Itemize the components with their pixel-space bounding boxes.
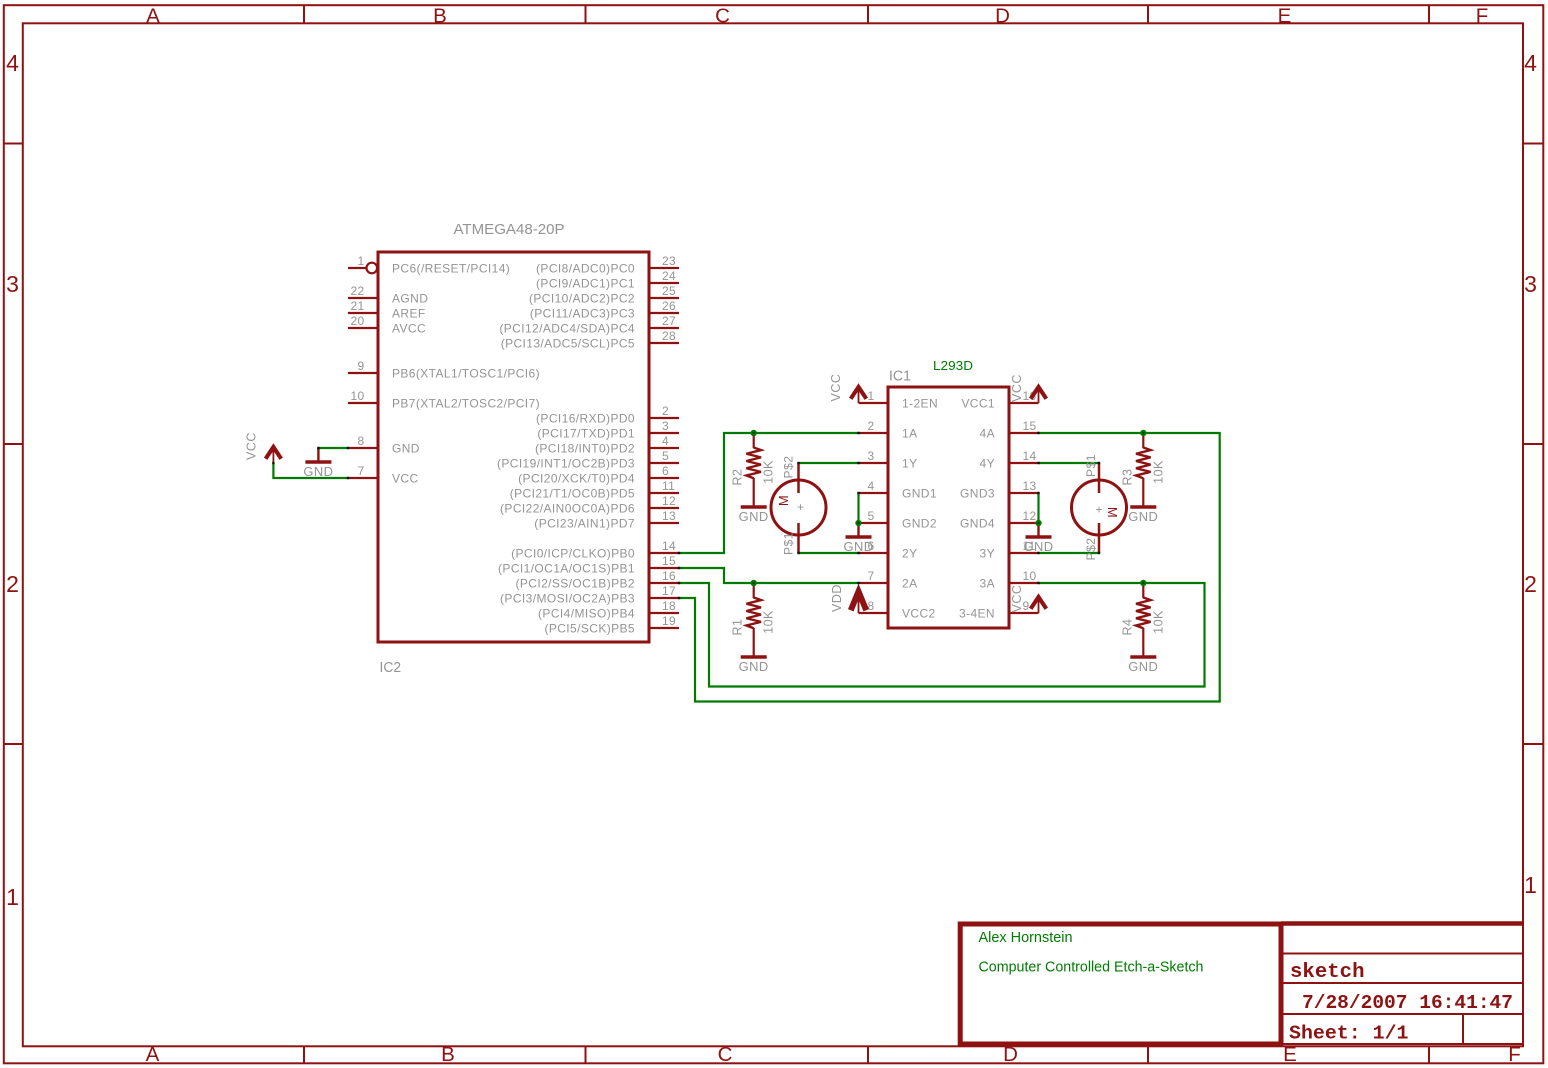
svg-text:28: 28 <box>662 329 676 343</box>
svg-text:A: A <box>146 5 160 28</box>
svg-text:ATMEGA48-20P: ATMEGA48-20P <box>454 221 565 238</box>
svg-text:(PCI5/SCK)PB5: (PCI5/SCK)PB5 <box>544 621 635 635</box>
svg-text:3A: 3A <box>980 576 995 590</box>
svg-text:C: C <box>718 1043 733 1066</box>
svg-text:GND2: GND2 <box>902 516 937 530</box>
svg-text:1: 1 <box>1524 872 1537 898</box>
svg-text:22: 22 <box>351 284 365 298</box>
svg-text:1A: 1A <box>902 426 917 440</box>
svg-text:15: 15 <box>662 554 676 568</box>
svg-text:IC2: IC2 <box>380 659 402 676</box>
svg-text:R2: R2 <box>731 469 745 486</box>
svg-text:1: 1 <box>868 389 875 403</box>
svg-text:B: B <box>433 5 447 28</box>
svg-text:10K: 10K <box>1151 460 1165 484</box>
svg-text:14: 14 <box>1023 449 1037 463</box>
svg-text:24: 24 <box>662 269 676 283</box>
svg-text:3: 3 <box>1524 271 1537 297</box>
svg-text:(PCI21/T1/OC0B)PD5: (PCI21/T1/OC0B)PD5 <box>510 486 635 500</box>
svg-text:GND: GND <box>392 441 420 455</box>
svg-text:18: 18 <box>662 599 676 613</box>
svg-text:AVCC: AVCC <box>392 321 426 335</box>
svg-text:D: D <box>995 5 1010 28</box>
svg-text:12: 12 <box>662 494 676 508</box>
svg-text:2: 2 <box>6 571 19 597</box>
svg-text:GND4: GND4 <box>960 516 995 530</box>
svg-text:10K: 10K <box>761 460 775 484</box>
svg-text:8: 8 <box>868 599 875 613</box>
svg-text:10: 10 <box>1023 569 1037 583</box>
svg-text:4: 4 <box>6 50 19 76</box>
svg-text:R3: R3 <box>1120 469 1134 486</box>
svg-text:4: 4 <box>868 479 875 493</box>
svg-text:7: 7 <box>358 464 365 478</box>
svg-text:7/28/2007 16:41:47: 7/28/2007 16:41:47 <box>1302 992 1513 1014</box>
svg-text:(PCI23/AIN1)PD7: (PCI23/AIN1)PD7 <box>534 516 635 530</box>
svg-text:(PCI12/ADC4/SDA)PC4: (PCI12/ADC4/SDA)PC4 <box>499 321 635 335</box>
svg-text:M: M <box>1105 507 1120 518</box>
svg-text:2: 2 <box>868 419 875 433</box>
svg-text:(PCI16/RXD)PD0: (PCI16/RXD)PD0 <box>536 411 635 425</box>
svg-text:P$1: P$1 <box>782 532 796 555</box>
svg-text:(PCI0/ICP/CLKO)PB0: (PCI0/ICP/CLKO)PB0 <box>511 546 635 560</box>
svg-text:Alex Hornstein: Alex Hornstein <box>979 929 1073 946</box>
svg-text:5: 5 <box>868 509 875 523</box>
svg-text:14: 14 <box>662 539 676 553</box>
svg-text:M: M <box>776 495 791 506</box>
svg-text:VCC: VCC <box>392 471 419 485</box>
svg-text:2: 2 <box>662 404 669 418</box>
svg-text:PB6(XTAL1/TOSC1/PCI6): PB6(XTAL1/TOSC1/PCI6) <box>392 366 540 380</box>
svg-text:(PCI1/OC1A/OC1S)PB1: (PCI1/OC1A/OC1S)PB1 <box>498 561 635 575</box>
svg-text:13: 13 <box>1023 479 1037 493</box>
svg-text:Computer Controlled Etch-a-Ske: Computer Controlled Etch-a-Sketch <box>979 959 1204 976</box>
svg-text:13: 13 <box>662 509 676 523</box>
svg-text:4: 4 <box>662 434 669 448</box>
svg-text:C: C <box>715 5 730 28</box>
svg-text:VCC: VCC <box>1010 374 1024 402</box>
svg-text:21: 21 <box>351 299 365 313</box>
svg-text:(PCI9/ADC1)PC1: (PCI9/ADC1)PC1 <box>536 276 635 290</box>
svg-text:GND: GND <box>739 510 769 524</box>
svg-text:Sheet: 1/1: Sheet: 1/1 <box>1289 1023 1409 1045</box>
svg-text:P$2: P$2 <box>782 456 796 479</box>
svg-text:IC1: IC1 <box>889 368 911 385</box>
svg-text:R1: R1 <box>731 619 745 636</box>
svg-text:GND: GND <box>1128 660 1158 674</box>
svg-text:GND: GND <box>1128 510 1158 524</box>
svg-text:16: 16 <box>662 569 676 583</box>
svg-text:1: 1 <box>358 254 365 268</box>
svg-text:15: 15 <box>1023 419 1037 433</box>
svg-text:4: 4 <box>1524 50 1537 76</box>
svg-text:10: 10 <box>351 389 365 403</box>
svg-text:GND3: GND3 <box>960 486 995 500</box>
svg-text:(PCI11/ADC3)PC3: (PCI11/ADC3)PC3 <box>530 306 635 320</box>
svg-text:10K: 10K <box>1151 610 1165 634</box>
svg-text:(PCI13/ADC5/SCL)PC5: (PCI13/ADC5/SCL)PC5 <box>501 336 635 350</box>
svg-text:(PCI18/INT0)PD2: (PCI18/INT0)PD2 <box>535 441 635 455</box>
svg-text:23: 23 <box>662 254 676 268</box>
svg-text:5: 5 <box>662 449 669 463</box>
svg-text:(PCI22/AIN0OC0A)PD6: (PCI22/AIN0OC0A)PD6 <box>500 501 635 515</box>
svg-text:VDD: VDD <box>830 584 844 612</box>
svg-text:PC6(/RESET/PCI14): PC6(/RESET/PCI14) <box>392 261 510 275</box>
svg-text:P$1: P$1 <box>1084 454 1098 477</box>
svg-text:B: B <box>441 1043 455 1066</box>
svg-text:sketch: sketch <box>1290 961 1365 984</box>
svg-text:E: E <box>1278 5 1292 28</box>
svg-text:2: 2 <box>1524 571 1537 597</box>
svg-text:3: 3 <box>662 419 669 433</box>
svg-text:12: 12 <box>1023 509 1037 523</box>
svg-text:+: + <box>797 500 804 514</box>
svg-text:25: 25 <box>662 284 676 298</box>
svg-text:VCC: VCC <box>244 432 258 460</box>
svg-text:L293D: L293D <box>933 358 973 373</box>
svg-text:19: 19 <box>662 614 676 628</box>
svg-text:1-2EN: 1-2EN <box>902 396 938 410</box>
svg-text:(PCI8/ADC0)PC0: (PCI8/ADC0)PC0 <box>536 261 635 275</box>
svg-text:4A: 4A <box>980 426 995 440</box>
svg-text:2Y: 2Y <box>902 546 917 560</box>
svg-text:6: 6 <box>662 464 669 478</box>
svg-text:8: 8 <box>358 434 365 448</box>
svg-text:+: + <box>1095 503 1102 517</box>
svg-text:11: 11 <box>662 479 675 493</box>
svg-text:(PCI19/INT1/OC2B)PD3: (PCI19/INT1/OC2B)PD3 <box>497 456 635 470</box>
svg-text:GND: GND <box>739 660 769 674</box>
svg-text:1: 1 <box>6 884 19 910</box>
svg-text:3-4EN: 3-4EN <box>959 606 995 620</box>
svg-text:7: 7 <box>868 569 875 583</box>
svg-text:R4: R4 <box>1120 619 1134 636</box>
svg-text:(PCI20/XCK/T0)PD4: (PCI20/XCK/T0)PD4 <box>518 471 635 485</box>
svg-text:27: 27 <box>662 314 676 328</box>
svg-text:F: F <box>1508 1043 1521 1066</box>
svg-text:VCC: VCC <box>829 374 843 402</box>
svg-text:20: 20 <box>351 314 365 328</box>
svg-text:VCC: VCC <box>1010 585 1024 613</box>
svg-text:VCC1: VCC1 <box>961 396 995 410</box>
svg-text:3Y: 3Y <box>980 546 995 560</box>
svg-text:2A: 2A <box>902 576 917 590</box>
svg-text:VCC2: VCC2 <box>902 606 936 620</box>
svg-text:P$2: P$2 <box>1084 538 1098 561</box>
svg-text:A: A <box>146 1043 160 1066</box>
svg-text:PB7(XTAL2/TOSC2/PCI7): PB7(XTAL2/TOSC2/PCI7) <box>392 396 540 410</box>
svg-text:GND: GND <box>303 465 333 479</box>
svg-text:(PCI2/SS/OC1B)PB2: (PCI2/SS/OC1B)PB2 <box>515 576 635 590</box>
svg-text:3: 3 <box>868 449 875 463</box>
svg-text:10K: 10K <box>761 610 775 634</box>
svg-text:4Y: 4Y <box>980 456 995 470</box>
svg-text:(PCI3/MOSI/OC2A)PB3: (PCI3/MOSI/OC2A)PB3 <box>500 591 635 605</box>
svg-text:GND1: GND1 <box>902 486 937 500</box>
svg-text:E: E <box>1283 1043 1297 1066</box>
svg-text:1Y: 1Y <box>902 456 917 470</box>
svg-text:AREF: AREF <box>392 306 426 320</box>
svg-text:(PCI10/ADC2)PC2: (PCI10/ADC2)PC2 <box>529 291 635 305</box>
svg-text:9: 9 <box>358 359 365 373</box>
svg-text:3: 3 <box>6 271 19 297</box>
svg-text:AGND: AGND <box>392 291 428 305</box>
svg-text:26: 26 <box>662 299 676 313</box>
svg-text:17: 17 <box>662 584 676 598</box>
svg-text:(PCI17/TXD)PD1: (PCI17/TXD)PD1 <box>537 426 635 440</box>
svg-text:F: F <box>1476 5 1489 28</box>
svg-text:(PCI4/MISO)PB4: (PCI4/MISO)PB4 <box>538 606 635 620</box>
